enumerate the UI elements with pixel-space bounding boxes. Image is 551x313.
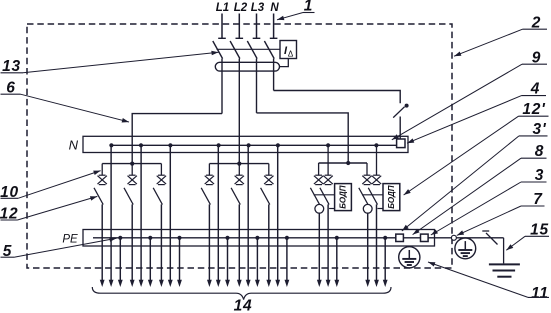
- QF1 trip linkage wire to I-delta release: [217, 48, 281, 50]
- callout 10 with leader: [0, 171, 101, 201]
- branch 2 PE junction dot: [148, 236, 152, 240]
- N busbar outline: [83, 136, 408, 152]
- wire supply L2 drop: [236, 14, 244, 39]
- wire I-delta box to toroid: [280, 59, 289, 67]
- callout 3 with leader: [431, 167, 547, 235]
- branch 3 phase outgoing wire with arrow: [159, 204, 164, 287]
- label N (supply): [270, 2, 279, 14]
- branch 2 phase outgoing wire with arrow: [130, 204, 135, 287]
- terminal square 3 on PE bus: [421, 234, 429, 241]
- wire L3 feed to group 3 manifold: [257, 113, 349, 163]
- terminal square 3' on PE bus: [396, 234, 404, 241]
- branch 5 switch blade: [231, 188, 240, 205]
- group 1 phase manifold wire: [102, 163, 161, 165]
- branch 7 PE wire with arrow: [334, 238, 339, 287]
- disconnect link hinge dot: [405, 104, 409, 108]
- dashed enclosure border (input distribution device): [27, 24, 452, 268]
- label L3: [251, 2, 265, 14]
- label L2: [234, 2, 248, 14]
- callout 1 with leader: [277, 0, 315, 20]
- branch 7 PE junction dot: [335, 236, 339, 240]
- branch 1 fuse-link FU1: [98, 175, 107, 184]
- branch 7 phase fuse-link: [314, 175, 323, 184]
- callout 8 with leader: [413, 143, 547, 234]
- svg-text:БОДП: БОДП: [387, 185, 396, 208]
- branch 8 neutral wire from N bus: [376, 145, 378, 175]
- wire supply N drop: [270, 14, 278, 39]
- svg-text:Δ: Δ: [288, 50, 294, 59]
- branch 2 PE wire with arrow: [148, 238, 153, 287]
- branch 1 PE junction dot: [118, 236, 122, 240]
- branch 2 switch blade: [124, 188, 133, 205]
- branch 6 fuse-link FU6: [264, 175, 273, 184]
- earth electrode at PE exit (circle with earth): [455, 238, 476, 259]
- group 2 manifold junction dot: [237, 162, 241, 166]
- terminal square 12' on N bus end: [397, 139, 405, 148]
- branch 1 neutral wire from N bus with arrow: [109, 145, 114, 287]
- wire PE exit to ground disconnect: [456, 237, 503, 239]
- branch 8 PE junction dot: [383, 236, 387, 240]
- branch 1 switch blade: [94, 188, 103, 205]
- branch 2 fuse-link FU2: [128, 175, 137, 184]
- earth symbol (15): [489, 264, 520, 276]
- branch 7 phase outgoing wire with arrow: [317, 213, 322, 287]
- svg-text:PE: PE: [62, 234, 78, 246]
- wire down to earth symbol 15: [503, 238, 505, 264]
- branch 7 neutral outgoing wire with arrow: [326, 204, 331, 287]
- circuit-breaker QF1 4-pole blades: [213, 41, 274, 59]
- branch 7 neutral switch blade: [320, 188, 329, 205]
- branch 7 phase switch blade: [310, 188, 319, 205]
- callout 5 with leader: [1, 237, 117, 260]
- branch 5 fuse-link FU5: [235, 175, 244, 184]
- group 2 phase manifold wire: [209, 163, 268, 165]
- branch 8 phase switch blade: [359, 188, 368, 205]
- branch 4 switch blade: [201, 188, 210, 205]
- wire N feed lower segment to terminal square: [399, 117, 401, 140]
- branch 4 phase outgoing wire with arrow: [207, 204, 212, 287]
- branch 3 switch blade: [153, 188, 162, 205]
- group 1 manifold junction dot: [130, 162, 134, 166]
- group 3 phase manifold wire: [319, 162, 367, 164]
- svg-text:11: 11: [531, 285, 549, 302]
- PE exit node (open circle): [451, 235, 456, 240]
- wire supply L3 drop: [253, 14, 261, 39]
- svg-text:L2: L2: [234, 2, 248, 14]
- branch 8 neutral fuse-link: [372, 175, 381, 184]
- branch 3 PE wire with arrow: [177, 238, 182, 287]
- label N (busbar): [69, 138, 79, 153]
- callout 13 with leader: [1, 51, 219, 75]
- branch 7 neutral wire from N bus: [327, 145, 329, 175]
- callout 6 with leader: [1, 80, 130, 123]
- branch 8 linkage to protection box: [362, 194, 383, 196]
- RCD toroid (differential current transformer): [215, 62, 279, 71]
- branch 3 fuse-link FU3: [157, 175, 166, 184]
- branch 8 neutral outgoing wire with arrow: [374, 204, 379, 287]
- callout 11 with leader: [428, 262, 549, 302]
- branch 5 neutral wire from N bus with arrow: [246, 145, 251, 287]
- branch 7 linkage to protection box: [314, 194, 335, 196]
- branch 3 phase drop wire: [160, 164, 162, 176]
- group 3 manifold junction dot: [346, 161, 350, 165]
- svg-text:N: N: [270, 2, 279, 14]
- callout 15 with leader: [506, 221, 549, 250]
- branch 8 box neutral connector: [378, 208, 384, 210]
- branch 1 phase outgoing wire with arrow: [100, 204, 105, 287]
- branch 6 phase drop wire: [268, 164, 270, 176]
- protection box BODP U1: [335, 184, 352, 211]
- branch 7 phase drop wire: [318, 163, 320, 175]
- wire L1 pole down through toroid: [221, 59, 223, 114]
- branch 5 phase outgoing wire with arrow: [237, 204, 242, 287]
- svg-text:14: 14: [234, 298, 253, 313]
- branch 2 neutral wire from N bus with arrow: [139, 145, 144, 287]
- svg-text:N: N: [69, 138, 79, 153]
- label PE (busbar): [62, 234, 78, 246]
- wire L3 pole down through toroid: [256, 59, 258, 113]
- callout 3prime with leader: [402, 121, 548, 231]
- PE bus conductor: [93, 237, 451, 239]
- branch 8 PE wire with arrow: [383, 238, 388, 287]
- wire L1 feed to group 1 manifold: [132, 114, 222, 164]
- branch 4 neutral wire from N bus with arrow: [216, 145, 221, 287]
- branch 7 sensor ring: [315, 204, 324, 213]
- label L1: [216, 2, 229, 14]
- branch 7 neutral fuse-link: [323, 175, 332, 184]
- callout 4 with leader: [407, 81, 546, 144]
- callout 9 with leader: [392, 49, 547, 140]
- branch 8 sensor ring: [363, 204, 372, 213]
- branch 6 phase outgoing wire with arrow: [266, 204, 271, 287]
- protection box BODP U2: [383, 184, 400, 211]
- callout 12 with leader: [0, 196, 97, 222]
- branch 3 neutral wire from N bus with arrow: [168, 145, 173, 287]
- branch 3 PE junction dot: [177, 236, 181, 240]
- differential release box IΔ: [280, 41, 297, 59]
- svg-text:L1: L1: [216, 2, 229, 14]
- branch 4 phase drop wire: [208, 164, 210, 176]
- wire N feed to N-bus end terminal: [274, 91, 401, 104]
- wire supply L1 drop: [218, 14, 226, 39]
- callout 7 with leader: [457, 191, 545, 235]
- branch 8 neutral switch blade: [368, 188, 377, 205]
- branch 6 neutral wire from N bus with arrow: [275, 145, 280, 287]
- repeated earth electrode 11 (circle with earth): [399, 247, 420, 268]
- branch 4 PE wire with arrow: [225, 238, 230, 287]
- branch 5 PE junction dot: [255, 236, 259, 240]
- callout 2 with leader: [454, 14, 547, 56]
- wire L2 pole down through toroid (feed of group 2): [238, 59, 240, 164]
- label 14: [234, 298, 253, 313]
- branch 8 phase outgoing wire with arrow: [365, 213, 370, 287]
- branch 7 box neutral connector: [329, 208, 335, 210]
- branch 8 phase drop wire: [366, 163, 368, 175]
- disconnect link blade on N feed: [393, 107, 404, 118]
- callout 12prime with leader: [404, 101, 549, 195]
- PE busbar outline: [83, 230, 435, 247]
- wire N pole down through toroid: [273, 59, 275, 91]
- branch 8 phase fuse-link: [362, 175, 371, 184]
- branch 6 switch blade: [261, 188, 270, 205]
- branch 5 phase drop wire: [238, 164, 240, 176]
- branch 2 phase drop wire: [131, 164, 133, 176]
- brace for outgoing group lines (14): [92, 287, 391, 300]
- branch 4 fuse-link FU4: [205, 175, 214, 184]
- ground disconnect blade: [482, 231, 497, 245]
- branch 4 PE junction dot: [225, 236, 229, 240]
- N bus conductor: [111, 144, 397, 146]
- svg-text:L3: L3: [251, 2, 265, 14]
- branch 5 PE wire with arrow: [255, 238, 260, 287]
- branch 6 PE wire with arrow: [285, 238, 290, 287]
- N bus tap junction dots: [109, 143, 378, 147]
- branch 1 phase drop wire: [101, 164, 103, 176]
- branch 1 PE wire with arrow: [118, 238, 123, 287]
- branch 6 PE junction dot: [285, 236, 289, 240]
- svg-text:БОДП: БОДП: [339, 185, 348, 208]
